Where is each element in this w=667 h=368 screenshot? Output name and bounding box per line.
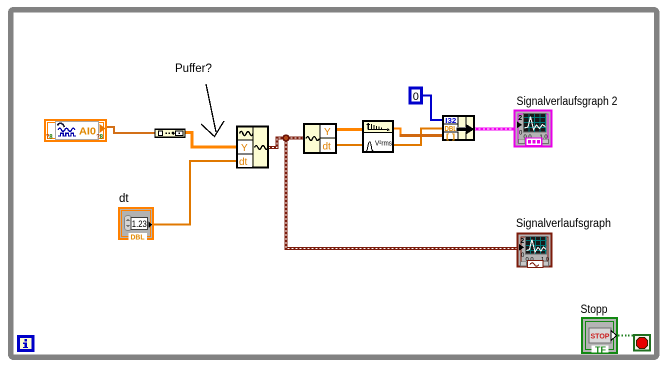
wire 0 constant to bundle I32 input: [421, 96, 443, 121]
build waveform node: [237, 127, 268, 169]
wire bundle to graph 2 (cluster): [474, 127, 517, 130]
svg-text:Y: Y: [324, 127, 331, 138]
wire waveform output to get components: [268, 138, 304, 148]
signal graph 2 terminal: [515, 111, 552, 147]
wire RMS output to bundle array input: [393, 129, 443, 136]
svg-text:V²rms: V²rms: [375, 139, 392, 148]
signal graph terminal: [518, 234, 552, 268]
svg-text:AI0: AI0: [79, 127, 96, 138]
stop button terminal: [582, 318, 617, 354]
svg-text:dt: dt: [323, 142, 332, 153]
wire index array to build waveform Y input: [185, 133, 237, 148]
svg-text:Puffer?: Puffer?: [175, 63, 212, 75]
dt control: [119, 208, 153, 242]
svg-text:dt: dt: [239, 157, 248, 168]
svg-text:Signalverlaufsgraph 2: Signalverlaufsgraph 2: [517, 96, 618, 108]
wire stop button to loop condition: [618, 335, 634, 337]
svg-text:STOP: STOP: [591, 332, 610, 341]
iteration terminal i: [19, 337, 34, 351]
svg-text:2: 2: [520, 238, 524, 245]
wire junction dot: [283, 135, 289, 141]
loop condition terminal: [634, 335, 650, 351]
wire Y array to RMS: [336, 128, 363, 131]
get waveform components node: [304, 124, 336, 153]
svg-text:DBL: DBL: [131, 233, 145, 242]
I32 constant 0: [410, 88, 422, 103]
AI0 DAQ express node: [45, 120, 106, 141]
annotation arrow: [201, 84, 224, 137]
svg-text:Signalverlaufsgraph: Signalverlaufsgraph: [516, 218, 611, 230]
svg-text:Stopp: Stopp: [581, 304, 608, 316]
wire AI0 to index array: [107, 127, 155, 133]
svg-text:I32: I32: [445, 118, 456, 125]
svg-text:Y: Y: [241, 143, 248, 154]
svg-text:[ ]: [ ]: [446, 134, 455, 141]
bundle node: [443, 116, 474, 141]
svg-text:dt: dt: [119, 193, 129, 205]
RMS measurement node: [363, 121, 393, 152]
wire waveform branch down to graph: [286, 138, 517, 249]
svg-text:2: 2: [518, 115, 522, 122]
wire dt to bundle DBL input: [336, 129, 443, 146]
svg-text:TF: TF: [595, 345, 606, 354]
svg-text:0: 0: [413, 91, 419, 103]
index array node: [155, 129, 185, 137]
svg-text:1.23: 1.23: [132, 219, 147, 229]
wire dt control to build waveform dt input: [152, 161, 237, 225]
